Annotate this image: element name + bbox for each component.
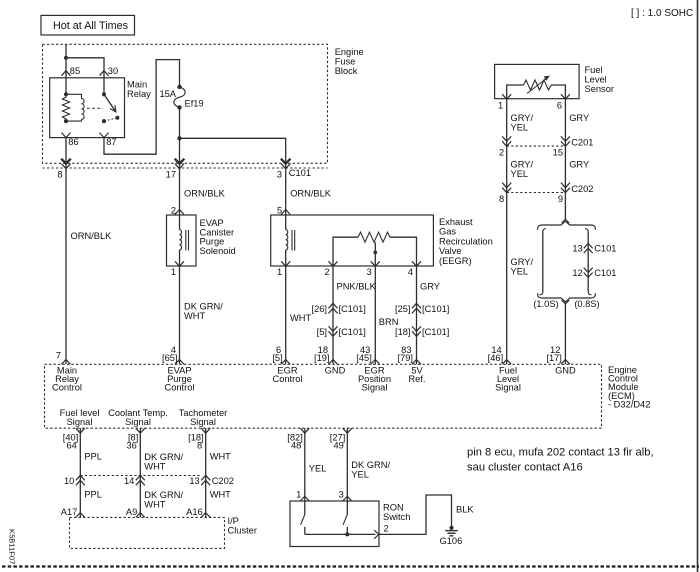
svg-text:49: 49: [333, 441, 343, 451]
svg-text:DK GRN/: DK GRN/: [144, 490, 183, 500]
svg-text:7: 7: [56, 350, 61, 360]
svg-text:2: 2: [499, 147, 504, 157]
svg-text:Signal: Signal: [362, 383, 388, 393]
svg-text:ORN/BLK: ORN/BLK: [71, 231, 113, 241]
svg-text:8: 8: [499, 194, 504, 204]
svg-text:17: 17: [166, 170, 176, 180]
svg-text:GRY: GRY: [569, 160, 589, 170]
ECM entry arrow pin 4: [175, 360, 184, 365]
node: junction 85 feed: [64, 56, 68, 60]
svg-text:5: 5: [277, 206, 282, 216]
EVAP pin 2 arrow: [175, 210, 184, 215]
svg-text:[5]: [5]: [317, 327, 327, 337]
connector C101 pass [26] up arrows: [329, 303, 338, 308]
svg-text:C101: C101: [289, 168, 311, 178]
svg-text:Cluster: Cluster: [228, 526, 257, 536]
svg-text:GRY/: GRY/: [511, 257, 534, 267]
svg-text:YEL: YEL: [511, 123, 529, 133]
svg-text:87: 87: [106, 137, 116, 147]
svg-text:15: 15: [553, 147, 563, 157]
svg-text:(0.8S): (0.8S): [574, 299, 599, 309]
svg-text:C202: C202: [571, 184, 593, 194]
svg-text:ORN/BLK: ORN/BLK: [290, 189, 332, 199]
svg-text:1: 1: [296, 489, 301, 499]
svg-text:sau cluster contact A16: sau cluster contact A16: [467, 462, 583, 474]
wire: GRY C201 to C202: [564, 146, 566, 192]
svg-text:Gas: Gas: [439, 227, 456, 237]
svg-text:Engine: Engine: [335, 47, 364, 57]
svg-text:BLK: BLK: [456, 505, 474, 515]
module: Engine Control Module (ECM) dashed box: [45, 364, 651, 428]
RON entry arrow 1: [300, 496, 309, 501]
wire start arrow: [562, 300, 570, 304]
svg-text:[C101]: [C101]: [422, 327, 449, 337]
ECM pin name: EGR Position Signal: [358, 365, 391, 392]
EEGR pin 3 arrow: [371, 261, 380, 266]
svg-text:1: 1: [171, 267, 176, 277]
svg-text:2: 2: [384, 524, 389, 534]
svg-text:Switch: Switch: [383, 512, 410, 522]
EVAP coil: [180, 215, 189, 266]
svg-text:YEL: YEL: [511, 169, 529, 179]
svg-text:[79]: [79]: [397, 353, 413, 363]
switch: RON Switch box: [290, 501, 410, 547]
EEGR pin 4 arrow: [412, 261, 421, 266]
pin 2 arrow: [374, 530, 379, 539]
svg-text:36: 36: [126, 441, 136, 451]
svg-text:Fuel: Fuel: [585, 65, 603, 75]
svg-text:[C101]: [C101]: [339, 304, 366, 314]
solenoid: EVAP Canister Purge Solenoid: [167, 215, 236, 266]
svg-text:GRY: GRY: [420, 282, 440, 292]
wire: fuse output: [179, 107, 181, 168]
wire: PPL fuel level signal: [79, 428, 81, 517]
cluster entry arrow A17: [76, 513, 85, 518]
svg-text:Block: Block: [335, 66, 358, 76]
svg-text:DK GRN/: DK GRN/: [351, 460, 390, 470]
exit arrow 8: [61, 159, 71, 164]
connector C202 pass arrows (pin 13): [201, 475, 210, 480]
ECM output name: Fuel level Signal: [60, 408, 100, 427]
svg-text:GRY/: GRY/: [511, 113, 534, 123]
svg-text:K5B11F07: K5B11F07: [8, 529, 17, 564]
svg-text:6: 6: [557, 100, 562, 110]
cluster entry arrow A16: [201, 513, 210, 518]
wire: link to relay pin 30: [66, 58, 104, 95]
svg-text:Ref.: Ref.: [408, 374, 425, 384]
svg-text:12: 12: [572, 268, 582, 278]
exit arrow 3 C101: [281, 159, 291, 164]
RON switch pole 1: [301, 501, 305, 534]
connector pass 12 C101 down arrows: [584, 268, 593, 273]
ECM entry arrow pin 7: [62, 360, 71, 365]
ECM pin name: EVAP Purge Control: [165, 365, 195, 392]
svg-text:[C101]: [C101]: [422, 304, 449, 314]
svg-text:DK GRN/: DK GRN/: [144, 452, 183, 462]
EEGR position sensor potentiometer: [333, 232, 417, 266]
wire: WHT EGR control to ECM pin 6: [285, 266, 287, 364]
wire: ORN/BLK C101 to EGR pin 5: [285, 169, 287, 215]
connector C202 dashed line (bottom): [80, 475, 201, 477]
connector C202 pass arrows (pin 14): [136, 475, 145, 480]
EEGR coil: [286, 215, 295, 266]
connector C101 pass [5] down arrows: [329, 326, 338, 331]
svg-text:Hot at All Times: Hot at All Times: [53, 20, 129, 32]
svg-text:WHT: WHT: [210, 452, 231, 462]
svg-text:C101: C101: [594, 244, 616, 254]
svg-text:[ ] : 1.0 SOHC: [ ] : 1.0 SOHC: [631, 8, 693, 19]
wire: BLK RON 2 to ground: [379, 495, 452, 534]
svg-text:WHT: WHT: [144, 499, 165, 509]
svg-text:ORN/BLK: ORN/BLK: [184, 189, 226, 199]
ECM pin name: Main Relay Control: [52, 365, 82, 392]
svg-text:[45]: [45]: [356, 353, 372, 363]
svg-text:WHT: WHT: [210, 489, 231, 499]
svg-text:64: 64: [66, 441, 76, 451]
svg-text:Relay: Relay: [127, 89, 151, 99]
ECM exit arrow 48: [300, 428, 309, 433]
RON entry arrow 3: [343, 496, 352, 501]
connector C202: [499, 183, 593, 204]
pin 85 arrow: [62, 71, 71, 76]
wire: battery feed into relay pin 85: [65, 44, 67, 94]
ground G106: [440, 526, 463, 546]
svg-text:(1.0S): (1.0S): [533, 299, 558, 309]
svg-text:2: 2: [324, 267, 329, 277]
annotation note: [467, 447, 654, 474]
svg-text:Exhaust: Exhaust: [439, 217, 473, 227]
svg-text:9: 9: [558, 194, 563, 204]
wire: PNK/BLK EEGR pin2 to ECM GND 18: [332, 266, 334, 364]
fuse Ef19 15A: [159, 85, 203, 110]
relay armature mechanical link (dashed): [87, 107, 103, 109]
svg-text:(EEGR): (EEGR): [439, 256, 472, 266]
Hot at All Times label box: [41, 15, 135, 35]
branch (0.8S) wire: [585, 229, 591, 295]
svg-text:Valve: Valve: [439, 246, 462, 256]
wire: branch to C101: [180, 138, 286, 168]
svg-text:10: 10: [64, 476, 74, 486]
wire: GRY 5V ref to ECM 83: [416, 266, 418, 364]
svg-text:GND: GND: [555, 365, 576, 375]
svg-text:13: 13: [189, 476, 199, 486]
svg-text:1: 1: [498, 100, 503, 110]
ECM pin name: 5V Ref.: [408, 365, 425, 384]
wire: DK GRN/YEL to RON switch 3: [346, 428, 348, 501]
svg-text:86: 86: [68, 137, 78, 147]
wire: ORN/BLK to EVAP solenoid pin 2: [179, 169, 181, 215]
svg-text:Fuse: Fuse: [335, 57, 356, 67]
svg-text:85: 85: [70, 66, 80, 76]
svg-text:WHT: WHT: [144, 462, 165, 472]
wire: relay 86 to fuse block exit 8: [65, 138, 67, 169]
sensor: Fuel Level Sensor box: [495, 64, 614, 98]
wire: relay 87 loop to fuse Ef19: [104, 60, 180, 155]
pin 87 arrow: [100, 133, 109, 138]
fuel sender variable resistor: [507, 76, 566, 99]
relay coil: [62, 92, 84, 123]
svg-text:4: 4: [408, 267, 413, 277]
svg-text:Signal: Signal: [495, 383, 521, 393]
connector C101 pass [18] down arrows: [412, 326, 421, 331]
svg-text:[26]: [26]: [311, 304, 327, 314]
svg-text:14: 14: [124, 476, 134, 486]
svg-text:[25]: [25]: [395, 304, 411, 314]
connector C201: [499, 136, 593, 157]
sensor pin 6 arrow: [561, 94, 570, 99]
svg-text:- D32/D42: - D32/D42: [608, 399, 650, 409]
svg-text:48: 48: [291, 441, 301, 451]
svg-text:Recirculation: Recirculation: [439, 236, 493, 246]
svg-text:[65]: [65]: [162, 353, 178, 363]
svg-text:GND: GND: [325, 365, 346, 375]
wire: DK GRN/WHT coolant temp signal: [139, 428, 141, 517]
wire end arrow: [562, 219, 570, 223]
wire: YEL to RON switch 1: [304, 428, 306, 501]
ECM output name: Tachometer Signal: [179, 408, 228, 427]
svg-text:8: 8: [57, 170, 62, 180]
potentiometer wiper: [374, 242, 376, 266]
svg-text:Control: Control: [52, 383, 82, 393]
EEGR pin 2 arrow: [329, 261, 338, 266]
variant split top brace: [538, 221, 596, 230]
svg-text:WHT: WHT: [184, 311, 205, 321]
connector C101 pass [25] up arrows: [412, 303, 421, 308]
svg-text:A17: A17: [61, 507, 78, 517]
module: I/P Cluster dashed box: [70, 516, 257, 548]
wire: GRY sensor 6 to C201: [564, 99, 566, 146]
EEGR pin 1 arrow: [281, 261, 290, 266]
wire: GRY/YEL sensor 1 to C201: [506, 99, 508, 146]
svg-text:Signal: Signal: [125, 417, 151, 427]
svg-text:13: 13: [572, 244, 582, 254]
wire: GRY ground branch to variant split: [564, 193, 566, 220]
relay switch contact: [102, 92, 120, 123]
ECM pin name: Fuel Level Signal: [495, 365, 521, 392]
svg-text:[46]: [46]: [488, 353, 504, 363]
ECM exit arrow 49: [343, 428, 352, 433]
svg-text:15A: 15A: [159, 89, 176, 99]
valve: Exhaust Gas Recirculation Valve (EEGR) box: [271, 215, 493, 266]
pin 86 arrow: [62, 133, 71, 138]
svg-text:C201: C201: [571, 138, 593, 148]
ECM exit arrow 36: [136, 428, 145, 433]
exit arrow 17: [175, 159, 185, 164]
svg-text:Ef19: Ef19: [185, 98, 204, 108]
wire: GND to ECM 12: [564, 303, 566, 365]
connector pass 13 C101 up arrows: [584, 244, 593, 249]
wire: ORN/BLK main relay control to ECM pin 7: [65, 169, 67, 365]
svg-text:2: 2: [171, 206, 176, 216]
svg-text:1: 1: [277, 267, 282, 277]
cluster entry arrow A9: [136, 513, 145, 518]
svg-text:Level: Level: [585, 75, 607, 85]
EGR pin 5 arrow: [281, 210, 290, 215]
wire: BRN EGR position signal to ECM 43: [374, 266, 376, 364]
svg-text:Solenoid: Solenoid: [200, 246, 236, 256]
svg-text:PPL: PPL: [84, 489, 102, 499]
svg-text:8: 8: [197, 441, 202, 451]
ECM exit arrow 8: [201, 428, 210, 433]
wire: DK GRN/WHT EVAP control to ECM pin 4: [179, 266, 181, 364]
svg-text:I/P: I/P: [228, 516, 239, 526]
svg-text:[C101]: [C101]: [339, 327, 366, 337]
wire: GRY/YEL C201 to C202: [506, 146, 508, 192]
svg-text:Control: Control: [273, 374, 303, 384]
EVAP pin 1 arrow: [175, 261, 184, 266]
svg-text:Control: Control: [165, 383, 195, 393]
svg-text:C202: C202: [212, 476, 234, 486]
svg-text:[18]: [18]: [395, 327, 411, 337]
Engine Fuse Block dashed box: [43, 44, 364, 168]
svg-text:GRY: GRY: [569, 113, 589, 123]
svg-text:PPL: PPL: [84, 452, 102, 462]
svg-text:GRY/: GRY/: [511, 160, 534, 170]
RON switch pole 3: [343, 501, 347, 534]
ECM pin name: EGR Control: [273, 365, 303, 384]
svg-text:[17]: [17]: [546, 353, 562, 363]
svg-text:G106: G106: [440, 536, 463, 546]
wire: GRY/YEL fuel level signal to ECM 14: [506, 193, 508, 365]
node: fuse output junction: [177, 136, 181, 140]
svg-text:3: 3: [339, 489, 344, 499]
svg-text:C101: C101: [594, 268, 616, 278]
svg-text:A9: A9: [126, 507, 137, 517]
svg-text:3: 3: [367, 267, 372, 277]
svg-text:BRN: BRN: [379, 317, 399, 327]
sensor pin 1 arrow: [502, 94, 511, 99]
svg-text:pin 8 ecu, mufa 202 contact 13: pin 8 ecu, mufa 202 contact 13 fir alb,: [467, 447, 654, 459]
svg-text:Signal: Signal: [67, 417, 93, 427]
svg-text:YEL: YEL: [309, 464, 327, 474]
svg-text:PNK/BLK: PNK/BLK: [337, 282, 377, 292]
svg-text:YEL: YEL: [511, 267, 529, 277]
svg-text:[5]: [5]: [272, 353, 282, 363]
svg-text:[19]: [19]: [314, 353, 330, 363]
svg-text:Signal: Signal: [190, 417, 216, 427]
svg-text:WHT: WHT: [290, 313, 311, 323]
branch (1.0S) wire: [540, 229, 546, 295]
connector C202 pass arrows (pin 10): [76, 475, 85, 480]
svg-text:YEL: YEL: [351, 470, 369, 480]
svg-text:A16: A16: [186, 507, 203, 517]
wire: WHT tachometer signal: [205, 428, 207, 517]
variant split bottom brace: [538, 293, 596, 302]
ECM output name: Coolant Temp. Signal: [108, 408, 168, 427]
svg-text:3: 3: [277, 170, 282, 180]
svg-text:Sensor: Sensor: [585, 84, 614, 94]
pin 30 arrow: [100, 71, 109, 76]
RON common rail to pin 2: [305, 533, 376, 535]
relay K1 Main Relay box: [50, 78, 151, 138]
svg-text:30: 30: [108, 66, 118, 76]
frame right border: [697, 0, 699, 572]
ECM exit arrow 64: [76, 428, 85, 433]
frame bottom dashed border: [2, 565, 699, 567]
svg-text:RON: RON: [383, 503, 404, 513]
